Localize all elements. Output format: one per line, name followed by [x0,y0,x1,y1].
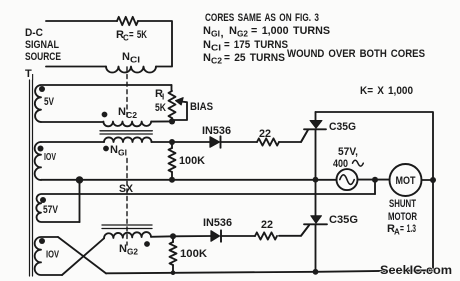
svg-text:N: N [203,39,211,51]
svg-text:= 5K: = 5K [129,29,147,41]
svg-text:IN536: IN536 [202,125,231,137]
svg-text:22: 22 [261,219,273,231]
svg-text:I: I [32,73,34,82]
svg-text:SOURCE: SOURCE [25,51,61,63]
svg-text:CI: CI [130,56,140,65]
svg-text:= 175 TURNS: = 175 TURNS [224,39,288,51]
svg-text:IOV: IOV [46,250,59,261]
svg-text:N: N [119,243,127,255]
svg-text:CORES SAME AS ON FIG. 3: CORES SAME AS ON FIG. 3 [205,12,319,24]
svg-text:GI: GI [118,149,127,158]
svg-text:5V: 5V [44,96,54,108]
svg-text:N: N [122,51,130,63]
svg-text:SX: SX [119,183,134,195]
svg-text:C35G: C35G [329,214,358,226]
svg-text:= 1.3: = 1.3 [400,223,416,235]
svg-text:N: N [110,144,118,156]
svg-text:N: N [229,25,237,37]
svg-text:22: 22 [259,128,271,140]
svg-text:MOTOR: MOTOR [388,211,417,223]
svg-text:C35G: C35G [329,121,356,133]
svg-text:G2: G2 [127,248,139,257]
svg-text:G2: G2 [237,30,249,39]
svg-text:GI: GI [211,30,220,39]
svg-text:C2: C2 [211,57,223,66]
svg-text:SHUNT: SHUNT [389,198,416,210]
svg-text:= 1,000 TURNS: = 1,000 TURNS [251,25,330,37]
svg-text:57V: 57V [43,204,59,216]
svg-text:BIAS: BIAS [190,101,213,113]
svg-text:IOV: IOV [44,152,56,163]
svg-text:,: , [221,28,224,40]
svg-text:5K: 5K [155,102,166,114]
svg-text:100K: 100K [179,155,205,167]
svg-text:MOT: MOT [396,175,416,187]
svg-text:57V,: 57V, [338,146,358,158]
svg-text:= 25 TURNS: = 25 TURNS [224,52,285,64]
svg-text:D-C: D-C [25,27,43,39]
svg-text:I: I [162,93,164,102]
svg-text:SIGNAL: SIGNAL [25,39,59,51]
svg-text:400: 400 [333,158,348,170]
svg-text:WOUND OVER BOTH CORES: WOUND OVER BOTH CORES [287,48,425,60]
svg-text:N: N [203,25,211,37]
svg-text:N: N [118,106,126,118]
svg-text:IN536: IN536 [203,217,232,229]
svg-text:100K: 100K [180,248,207,260]
svg-text:N: N [203,52,211,64]
svg-text:CI: CI [211,44,221,53]
svg-text:K= X 1,000: K= X 1,000 [360,85,413,97]
svg-text:C2: C2 [126,111,138,120]
svg-text:SeekIC.com: SeekIC.com [380,263,452,277]
